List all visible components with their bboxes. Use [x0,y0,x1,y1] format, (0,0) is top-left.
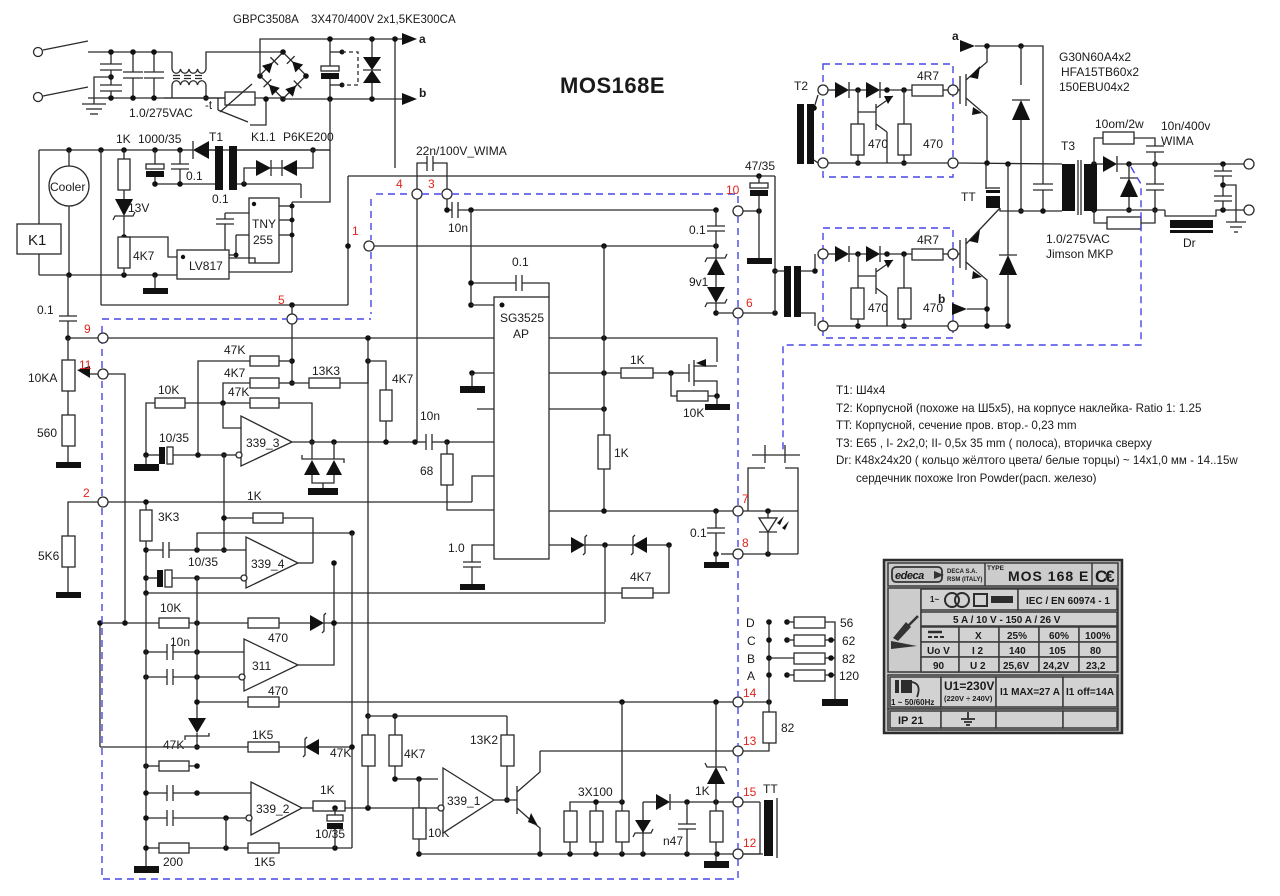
wire rail C y211 [1000,208,1062,214]
capacitor input 339_4 [146,530,355,569]
diode clamp D2 [999,164,1017,329]
svg-text:4R7: 4R7 [917,69,939,83]
gate drive box upper [818,64,958,177]
node 15 [733,797,743,807]
wire bottom rail y854 [419,851,763,857]
svg-text:3: 3 [428,177,435,191]
svg-text:4K7: 4K7 [630,570,652,584]
node 2 [98,497,108,507]
svg-text:470: 470 [268,684,288,698]
IGBT lower [958,208,1000,326]
capacitor output terminal b [1214,196,1232,210]
capacitor X 1.0/275VAC a [123,49,143,101]
wire node3 down [446,199,448,210]
svg-text:-t: -t [205,100,213,112]
svg-text:GBPC3508A: GBPC3508A [233,14,299,26]
diode d2 upper [866,82,880,98]
svg-text:23,2: 23,2 [1086,661,1106,672]
ground input EMI [82,98,106,114]
svg-text:6: 6 [746,296,753,310]
potentiometer 10KA [28,338,98,415]
capacitor 0.1 TNY [212,192,249,258]
capacitor 10/35 input [134,431,227,471]
capacitor 10n 311 [143,635,244,660]
wire x146 column [134,593,159,873]
capacitor Y to ground [94,77,122,101]
svg-text:2: 2 [83,486,90,500]
svg-text:D: D [746,616,755,630]
svg-text:1.0: 1.0 [448,541,465,555]
svg-text:10n: 10n [420,409,440,423]
svg-text:8: 8 [742,536,749,550]
svg-text:3X470/400V: 3X470/400V [311,14,375,26]
thyristor shutdown [185,699,209,750]
resistor 1K TT [695,784,729,868]
resistor 68 [420,442,494,510]
ground aux [143,275,168,294]
capacitor output filter a [1146,164,1164,213]
svg-text:25,6V: 25,6V [1003,661,1029,672]
mains row [888,675,1118,709]
capacitor 22n [417,156,447,189]
svg-text:WIMA: WIMA [1161,134,1194,148]
svg-text:10K: 10K [160,601,181,615]
svg-text:4K7: 4K7 [133,249,155,263]
optocoupler LV817 [124,237,292,279]
IGBT upper [958,46,987,163]
op-amp 339_2 [246,782,302,835]
switch contact top [43,41,88,50]
svg-text:90: 90 [933,661,945,672]
svg-text:T1: Ш4x4: T1: Ш4x4 [836,384,886,397]
svg-text:(220V ÷ 240V): (220V ÷ 240V) [944,694,993,703]
svg-text:1.0/275VAC: 1.0/275VAC [129,106,193,120]
wire T3 secondary top [1091,161,1103,167]
capacitor output terminal a [1214,164,1232,196]
svg-text:24,2V: 24,2V [1043,661,1069,672]
capacitor input 339_2 b [143,810,246,826]
svg-text:13K2: 13K2 [470,733,498,747]
resistor vert plain [362,713,375,811]
svg-text:25%: 25% [1007,631,1027,642]
wire pin right 409 [549,406,607,412]
wire top AC rail [88,51,172,53]
svg-text:150EBU04x2: 150EBU04x2 [1059,80,1130,94]
svg-text:339_2: 339_2 [256,802,290,816]
node 1 [364,241,374,251]
wire node8 rail [721,551,798,557]
bridge rectifier GBPC3508A [252,45,314,107]
diode feedback TT [643,794,733,854]
wire pin right 338 [549,335,717,362]
resistor 1K fb 339_4 [221,455,313,563]
transformer T3 [1061,139,1097,215]
transistor MOSFET buffer [689,359,717,396]
svg-text:47K: 47K [228,385,249,399]
capacitor 3X470/400V [321,36,358,102]
svg-text:0.1: 0.1 [212,192,229,206]
arrow node a [402,32,426,46]
plate header row [888,563,1118,586]
svg-text:A: A [747,669,755,683]
diode clamp D1 [1012,46,1030,214]
welding electrode icon [920,588,922,672]
svg-text:1~: 1~ [930,595,939,604]
svg-text:edeca: edeca [895,570,924,582]
capacitor 1.0 [448,541,494,590]
svg-text:10K: 10K [158,383,179,397]
wire HV feed down [292,99,330,202]
svg-text:14: 14 [743,686,757,700]
node 3 [442,189,452,199]
svg-text:10n: 10n [448,221,468,235]
capacitor 10n pin5 [444,202,719,235]
svg-text:C€: C€ [1095,567,1115,586]
svg-text:80: 80 [1090,646,1102,657]
svg-text:56: 56 [840,616,854,630]
transformer T2 [772,79,823,326]
svg-text:13K3: 13K3 [312,364,340,378]
wire node1 rail [374,243,719,249]
capacitor 0.1 pin16 [468,210,549,308]
svg-text:a: a [952,29,959,43]
svg-text:1K: 1K [320,783,335,797]
selector D C B A [746,616,772,702]
svg-text:T3: T3 [1061,139,1075,153]
svg-text:10/35: 10/35 [159,431,189,445]
svg-text:LV817: LV817 [189,259,223,273]
svg-text:T3: Е65 , I- 2х2,0; II- 0,5х 3: T3: Е65 , I- 2х2,0; II- 0,5х 35 mm ( пол… [836,437,1152,450]
capacitor 10/35 339_2 [315,805,345,848]
net dashed output feedback [783,167,1141,452]
capacitor input 311 [143,669,239,685]
svg-text:MOS168E: MOS168E [560,73,665,98]
wire node5 rail [101,150,348,308]
svg-text:22n/100V_WIMA: 22n/100V_WIMA [416,144,507,158]
svg-text:5 A / 10 V - 150 A / 26 V: 5 A / 10 V - 150 A / 26 V [953,615,1061,626]
resistor 82 vert [743,702,795,751]
svg-text:13V: 13V [128,201,149,215]
transformer TT sense [743,782,778,858]
svg-text:470: 470 [923,137,943,151]
diode output D4 [1120,164,1138,213]
wire pin left 373 + ground [460,370,494,393]
node 11 [98,369,108,379]
svg-text:0.1: 0.1 [186,169,203,183]
TNY right pins [279,184,301,272]
capacitor 47/35 [745,159,775,264]
capacitor 0.1 node10 [689,210,725,246]
svg-text:200: 200 [163,855,183,869]
svg-text:B: B [747,652,755,666]
wire +15 rail y338 [68,337,494,339]
wire node5 vertical [289,305,295,386]
inductor Dr [1170,220,1213,250]
svg-text:T1: T1 [209,130,223,144]
wire rail B y163 [958,160,1062,167]
transformer TT primary bar [961,164,1000,208]
svg-text:Uo V: Uo V [927,646,950,657]
capacitor X 1.0/275VAC b [144,49,164,101]
LED remote [759,511,789,554]
resistor 1K5 pulse [197,728,305,752]
svg-text:10om/2w: 10om/2w [1095,117,1144,131]
svg-text:1 ~ 50/60Hz: 1 ~ 50/60Hz [891,698,934,707]
diode 47K row [303,737,355,760]
capacitor 1000/35 [146,150,164,184]
wire rail a top [417,29,1042,52]
svg-text:1K5: 1K5 [252,728,274,742]
svg-text:339_1: 339_1 [447,794,481,808]
svg-text:TT: TT [763,782,778,796]
svg-text:AP: AP [513,327,529,341]
svg-text:5K6: 5K6 [38,549,60,563]
svg-text:C: C [747,634,756,648]
svg-text:Jimson MKP: Jimson MKP [1046,247,1113,261]
svg-text:T2: Корпусной (похоже на Ш5х5): T2: Корпусной (похоже на Ш5х5), на корпу… [836,402,1201,415]
zener pair clamp 339_3 [302,442,344,495]
resistor 13K3 [292,358,371,388]
node 7 [733,506,743,516]
wire vcc vertical x604 [603,246,605,435]
net dashed control loop [370,199,372,240]
svg-text:339_3: 339_3 [246,436,280,450]
gate drive box lower [818,228,958,338]
wire pin left 476 jog [472,476,494,502]
svg-text:2x1,5KE300CA: 2x1,5KE300CA [377,14,456,26]
svg-text:10/35: 10/35 [188,555,218,569]
svg-text:HFA15TB60x2: HFA15TB60x2 [1061,65,1139,79]
plate body band [888,588,1118,672]
svg-text:1: 1 [352,224,359,238]
svg-text:G30N60A4x2: G30N60A4x2 [1059,50,1131,64]
switch contact bottom [43,87,88,96]
wire bottom AC rail [88,97,225,99]
resistor 4K7 shutdown [146,545,669,598]
svg-text:82: 82 [781,721,795,735]
svg-text:10K: 10K [683,406,704,420]
wire box bottom rail [828,162,948,164]
svg-text:1K: 1K [614,446,629,460]
wire node7 to LED [743,508,798,514]
svg-text:4K7: 4K7 [404,747,426,761]
transistor NPN driver [517,751,540,854]
wire 339_3 output rail [292,439,418,445]
pin stub left 409 [477,408,494,410]
svg-text:1000/35: 1000/35 [138,132,182,146]
wire HV vertical right [392,36,398,168]
wire node10 to cap47 [743,208,762,214]
wire bridge left corner to rail a [260,39,402,76]
svg-text:I1 MAX=27 A: I1 MAX=27 A [1000,687,1060,698]
svg-text:TT: TT [961,190,976,204]
capacitor 0.1 node7 [690,511,729,568]
relay K1 [17,150,61,275]
svg-text:10/35: 10/35 [315,827,345,841]
output terminal minus [1244,205,1254,215]
resistor 200 [143,818,248,869]
resistor 1K5 bottom [248,843,352,869]
svg-text:Dr: К48х24х20 ( кольцо жёлтого: Dr: К48х24х20 ( кольцо жёлтого цвета/ бе… [836,454,1238,467]
wire aux gnd rail [39,272,177,278]
svg-text:47/35: 47/35 [745,159,775,173]
svg-text:3X100: 3X100 [578,785,613,799]
resistor 5K6 [38,536,81,598]
IC TNY255 [249,198,279,263]
svg-text:TNY: TNY [252,217,276,231]
diode d1 upper [835,82,849,98]
wire long rail y176 [345,173,775,305]
resistor 13K2 [470,716,514,803]
comparator 311 [239,560,337,691]
resistor 1K aux [118,150,130,199]
zener TT clamp [633,802,653,837]
svg-text:68: 68 [420,464,434,478]
resistor sel 120 [784,669,859,683]
ground output [1223,185,1246,232]
svg-text:560: 560 [37,426,57,440]
wire pin left 305 [471,304,494,306]
wire node13 rail [540,750,733,752]
resistor damper output [1094,210,1155,229]
resistor 10K 339_1 [413,779,449,857]
svg-text:U 2: U 2 [970,661,986,672]
ground selector [822,699,848,706]
svg-text:4K7: 4K7 [224,366,246,380]
resistor 4K7 vert2 [389,713,438,782]
svg-text:120: 120 [839,669,859,683]
wire box bottom rail lower [828,325,948,327]
wire x605 down [604,545,606,622]
ratings row [921,612,1117,626]
arrow node b lower [938,292,990,315]
resistor 1K gate [549,353,689,378]
Cooler fan [49,150,89,275]
wire x100 column [99,623,101,747]
wire rail b bottom [958,323,1008,329]
capacitor X2 input top [100,49,122,85]
svg-text:1.0/275VAC: 1.0/275VAC [1046,232,1110,246]
svg-text:0.1: 0.1 [37,303,54,317]
wire node6 rail [716,310,778,316]
svg-text:10n/400v: 10n/400v [1161,119,1210,133]
node 14 [733,697,743,707]
resistor 3K3 [140,499,180,596]
capacitor 10n/400v WIMA [1146,119,1210,164]
svg-text:255: 255 [253,233,273,247]
resistor 47K lower [228,385,315,445]
svg-text:470: 470 [268,631,288,645]
svg-text:b: b [419,86,426,100]
svg-text:1K: 1K [695,784,710,798]
zener pair 9v1 [689,246,727,316]
svg-text:11: 11 [79,358,92,372]
svg-text:I1 off=14A: I1 off=14A [1066,687,1114,698]
svg-text:311: 311 [252,659,271,673]
svg-text:SG3525: SG3525 [500,311,544,325]
svg-text:9v1: 9v1 [689,275,709,289]
thermistor -t [205,84,255,112]
svg-text:12: 12 [743,836,757,850]
node 4 [412,189,422,199]
bottom row [888,709,1118,730]
svg-text:0.1: 0.1 [690,526,707,540]
svg-text:339_4: 339_4 [251,557,285,571]
diode pair P6KE200 [244,150,313,184]
diode d2 lower [866,246,880,262]
resistor 4K7 vertical [365,335,413,716]
svg-text:62: 62 [842,634,856,648]
svg-text:P6KE200: P6KE200 [283,130,334,144]
resistor 470 lower [197,684,733,707]
svg-text:470: 470 [868,301,888,315]
wire node2 rail [68,502,472,536]
svg-text:Cooler: Cooler [50,180,85,194]
svg-text:105: 105 [1049,646,1066,657]
zener 13V [113,199,149,240]
svg-text:TT: Корпусной, сечение пров. в: TT: Корпусной, сечение пров. втор.- 0,23… [836,419,1077,432]
capacitor 10/35 339_4 [146,570,241,587]
wire pin left 442 rail [444,439,494,445]
svg-text:1K: 1K [116,132,131,146]
resistor sel 62 [784,634,855,648]
svg-text:U1=230V: U1=230V [944,679,994,693]
svg-text:7: 7 [742,492,749,506]
capacitor 0.1 aux [171,150,203,184]
svg-text:82: 82 [842,652,856,666]
svg-text:47K: 47K [163,738,184,752]
node 12 [733,849,743,859]
svg-text:Dr: Dr [1183,236,1196,250]
svg-text:10: 10 [726,183,740,197]
svg-text:5: 5 [278,293,285,307]
resistor 560 [37,415,81,468]
svg-text:1K5: 1K5 [254,855,276,869]
svg-text:K1: K1 [28,232,46,249]
svg-text:0.1: 0.1 [689,223,706,237]
transistor pnp lower [875,268,877,294]
resistor sel 56 [784,616,853,699]
svg-text:n47: n47 [663,834,683,848]
svg-text:4K7: 4K7 [392,372,414,386]
diode pair shutdown pins [549,535,672,555]
generator symbol cell [921,589,1018,610]
svg-text:9: 9 [84,322,91,336]
input terminal bottom [34,93,43,102]
capacitor snubber 1.0/275VAC [1033,46,1113,261]
table [921,627,1117,672]
svg-text:470: 470 [868,137,888,151]
svg-text:60%: 60% [1049,631,1069,642]
resistor 10om/2w snubber [1094,117,1155,164]
node 5 [287,314,297,324]
svg-text:10KA: 10KA [28,371,57,385]
IEC cell [1018,589,1117,610]
TVS 2x1,5KE300CA [363,36,381,102]
resistor 47K top [198,343,292,455]
node 8 [733,549,743,559]
wire NTC to bridge [255,96,283,102]
transformer T1 [152,146,330,190]
resistor 1K x604 [598,435,629,511]
capacitor n47 [663,802,696,854]
resistor sel 82 jumper B [769,652,856,666]
svg-text:b: b [938,292,945,306]
svg-text:4R7: 4R7 [917,233,939,247]
wire row716 [368,715,507,717]
resistors 3X100 [564,702,629,854]
svg-text:I 2: I 2 [972,646,984,657]
